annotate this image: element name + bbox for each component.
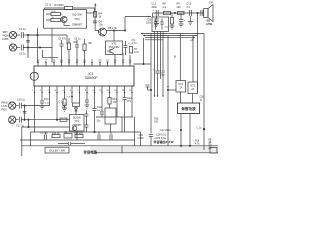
capacitor C4 xyxy=(93,21,97,23)
wire right vertical x=204 xyxy=(203,34,205,151)
resistor R4 label xyxy=(99,12,103,19)
wire: left frame vertical x=3 xyxy=(30,132,32,146)
svg-text:VT3: VT3 xyxy=(112,42,117,46)
bottom row: capacitor C24 xyxy=(98,132,100,140)
wires amp box down to bus xyxy=(180,114,190,147)
svg-text:RCW: RCW xyxy=(3,33,10,37)
resistor R8a vertical xyxy=(83,39,86,63)
wire x=168 vertical with arrow xyxy=(167,36,176,146)
svg-text:TV1: TV1 xyxy=(74,119,79,123)
resistor R3 above box xyxy=(45,6,95,11)
wire pin10 down: capacitor C21 xyxy=(100,93,104,118)
relay NT1 label xyxy=(179,83,184,90)
capacitor C4 label xyxy=(99,20,104,27)
connector J1 xyxy=(9,31,20,38)
wire x=122 bus links xyxy=(121,117,123,153)
capacitor C13 xyxy=(189,10,191,16)
wire pin11 down: resistor R12 xyxy=(108,93,111,109)
capacitor C9 label xyxy=(132,38,138,45)
drop resistor R10 with ground xyxy=(170,13,175,29)
connector J2 xyxy=(9,44,20,51)
bottom row: diode D1 box xyxy=(64,134,72,139)
capacitor C12 xyxy=(156,10,158,16)
bottom right labels column xyxy=(154,118,159,124)
bottom row: resistor R14 xyxy=(75,135,83,138)
capacitor C10b in box3 xyxy=(160,19,164,30)
resistor R8 label xyxy=(163,3,167,9)
wire bundle v2 xyxy=(154,32,156,97)
svg-text:+: + xyxy=(184,20,186,23)
wire pin8 down: capacitor and ground xyxy=(85,93,90,109)
bundle capacitor C26 xyxy=(149,134,153,146)
svg-text:3: 3 xyxy=(47,90,49,92)
wire box1 right to supply chain xyxy=(87,4,97,31)
svg-text:2.2k: 2.2k xyxy=(67,97,72,99)
bottom row: capacitor C25 xyxy=(110,132,112,140)
capacitor C17 xyxy=(19,117,69,123)
wire pin7 down into TV1 box xyxy=(79,93,81,104)
svg-text:R3 6800: R3 6800 xyxy=(55,4,65,7)
svg-text:220: 220 xyxy=(177,6,182,9)
box text SQ SW TV2 2SB687 xyxy=(72,13,83,27)
wire x=134.5 down xyxy=(134,117,136,146)
svg-text:C2 1u: C2 1u xyxy=(19,52,26,55)
svg-text:20: 20 xyxy=(99,59,102,62)
IC U1 notch xyxy=(30,72,38,80)
wire pin4 down xyxy=(56,93,57,121)
wire bundle v1 xyxy=(150,34,152,134)
wire NT2 top feed xyxy=(192,36,194,83)
wire: bus y=140 xyxy=(20,139,135,141)
supply rail 1 xyxy=(141,33,204,35)
wire box3 top to audio line xyxy=(152,13,154,17)
svg-text:TV2: TV2 xyxy=(74,17,80,21)
wire y=35 rail to cluster xyxy=(28,35,67,44)
wire x=37.5 vertical to IC pin 28 xyxy=(37,28,38,63)
junction node x28 bottom xyxy=(24,105,25,121)
wire x=140.5 down xyxy=(140,132,142,146)
transistor VT3 labels xyxy=(109,42,120,49)
drop ground under C13 xyxy=(188,16,193,25)
wire box1 bottom to IC pin 26 xyxy=(51,28,53,62)
svg-text:LCN: LCN xyxy=(2,104,7,108)
svg-text:伴音电路: 伴音电路 xyxy=(83,149,98,154)
relay box NT2 xyxy=(188,82,198,94)
resistor R8 xyxy=(164,11,171,14)
svg-text:6: 6 xyxy=(70,90,72,92)
svg-text:4.7k: 4.7k xyxy=(134,50,140,54)
wire NT1 top feed xyxy=(179,34,181,81)
transistor Q2 symbol in TV1 box xyxy=(72,126,76,130)
capacitor C14 xyxy=(201,10,203,16)
wire corner to pin 25 xyxy=(43,50,59,57)
svg-text:27: 27 xyxy=(45,59,48,62)
capacitor C3 mini on node xyxy=(26,41,30,53)
SQSW TV1 labels xyxy=(72,116,82,127)
resistor R4 vertical xyxy=(94,12,97,18)
resistor R7 vertical xyxy=(129,47,132,54)
svg-text:C23 1u: C23 1u xyxy=(40,132,49,135)
supply rail 4 short xyxy=(145,39,163,41)
wire: bottom edge bus y=153 xyxy=(95,152,218,154)
wire x=28 stub down xyxy=(27,48,29,59)
drop capacitor C16a with ground xyxy=(179,13,184,27)
wire from C1 to node xyxy=(23,34,37,36)
connector J3 xyxy=(9,102,19,109)
IC U1 top pin junction dots xyxy=(37,62,131,64)
resistor R2 xyxy=(46,18,60,21)
resistor R7 label xyxy=(134,47,140,54)
bottom right value rows xyxy=(154,129,171,140)
IC U1 TA8690P body xyxy=(34,66,134,86)
wire bundle v4 xyxy=(160,32,162,80)
audio out wire y=13 xyxy=(153,12,204,13)
svg-text:1u: 1u xyxy=(200,100,203,102)
IC U1 bottom pins xyxy=(35,86,133,93)
box3 component block xyxy=(152,17,169,32)
capacitor C16 xyxy=(19,103,49,109)
svg-text:NT2: NT2 xyxy=(191,84,196,87)
wire IC right edge to bundle xyxy=(134,63,152,65)
resistor R6 vertical xyxy=(67,38,70,63)
wire TV1 box to bus xyxy=(76,131,78,140)
svg-text:10u: 10u xyxy=(97,121,102,123)
wire pin12 down xyxy=(116,93,118,118)
svg-text:R8: R8 xyxy=(89,42,93,45)
svg-text:C5 47u: C5 47u xyxy=(58,38,67,41)
transistor VT2 xyxy=(95,28,106,36)
resistor R9 label xyxy=(177,3,182,9)
IC U1 bottom pin junction dots xyxy=(34,92,133,93)
audio power amp box xyxy=(178,103,200,114)
capacitor C31 small xyxy=(146,85,152,91)
cluster: capacitor C5 xyxy=(60,40,64,63)
svg-text:2A: 2A xyxy=(179,87,182,90)
svg-text:2.2: 2.2 xyxy=(163,6,167,9)
under-IC value labels xyxy=(45,97,72,105)
wire pin1 down to bus xyxy=(34,93,36,133)
svg-text:C 1u: C 1u xyxy=(197,128,203,130)
svg-text:SP: SP xyxy=(209,1,213,5)
svg-text:C15: C15 xyxy=(147,20,152,22)
wire pin3 down xyxy=(49,93,51,106)
capacitor C30 label xyxy=(200,97,205,102)
capacitor C22 label xyxy=(127,97,132,103)
bottom row: capacitor C23 xyxy=(45,132,47,140)
svg-text:100: 100 xyxy=(154,121,159,124)
connector J1 labels xyxy=(3,30,10,41)
svg-text:1u: 1u xyxy=(97,109,100,112)
svg-text:5: 5 xyxy=(62,90,64,92)
wire x=143.5 vertical to IC right xyxy=(143,38,144,65)
wire L to arrow into box3 xyxy=(125,16,151,31)
capacitor C34 mini on node xyxy=(23,112,27,114)
svg-text:伴音输出2×1W: 伴音输出2×1W xyxy=(153,139,174,144)
svg-text:TA8690P: TA8690P xyxy=(84,76,97,80)
capacitor C8 xyxy=(124,41,128,55)
wire pin6 down into TV1 box xyxy=(71,93,79,115)
svg-text:2SC2482: 2SC2482 xyxy=(109,45,120,49)
wire Q1 links xyxy=(60,14,70,26)
svg-text:4.7k: 4.7k xyxy=(195,144,200,146)
svg-text:FWS: FWS xyxy=(3,37,9,41)
box: mute switch SQSW TV1 xyxy=(70,115,85,132)
short bus y=117 xyxy=(96,116,133,118)
svg-text:26: 26 xyxy=(53,59,56,62)
capacitor C6 xyxy=(75,40,79,63)
wire bundle v5 xyxy=(162,32,164,97)
svg-text:+: + xyxy=(153,9,155,12)
box: mute switch SQ SW TV2 xyxy=(44,10,87,29)
speaker impedance label xyxy=(206,19,213,26)
svg-text:SBY: SBY xyxy=(3,30,9,34)
svg-text:0.1: 0.1 xyxy=(187,6,191,9)
capacitor C12 label xyxy=(152,3,158,9)
svg-text:C27 220u: C27 220u xyxy=(160,129,171,132)
connector J3 labels xyxy=(2,101,8,112)
component box under pin 11 xyxy=(105,108,116,132)
IC U1 label xyxy=(84,72,97,80)
svg-text:1: 1 xyxy=(32,90,34,92)
resistor R9 xyxy=(178,11,185,14)
svg-text:C6 1u: C6 1u xyxy=(74,38,81,41)
wire VT2 to right y=30.5 xyxy=(107,30,126,31)
svg-text:9: 9 xyxy=(92,90,94,92)
IC U1 top pin numbers xyxy=(37,59,132,62)
svg-text:C16 1u: C16 1u xyxy=(17,99,26,102)
scan shadow band bottom xyxy=(90,146,218,152)
svg-text:100: 100 xyxy=(62,106,67,109)
wire bundle v3 with capacitor C11 xyxy=(155,32,159,97)
svg-text:100u: 100u xyxy=(146,23,152,25)
svg-text:47k: 47k xyxy=(113,101,118,104)
wire: bus y=132 xyxy=(31,131,141,133)
wire pin13 down: capacitor C22 xyxy=(123,93,127,133)
svg-text:DOLBY / NR: DOLBY / NR xyxy=(49,148,65,152)
capacitor C13 label xyxy=(187,3,192,9)
transistor Q1 in box xyxy=(61,17,67,23)
svg-text:2A: 2A xyxy=(191,88,194,91)
connector J4 xyxy=(9,116,19,123)
svg-text:7: 7 xyxy=(77,90,79,92)
svg-text:4.7u: 4.7u xyxy=(132,41,138,45)
IC U1 bottom pin numbers xyxy=(32,90,132,92)
speaker SP xyxy=(204,5,213,22)
capacitor C10a in box3 xyxy=(154,19,158,30)
capacitor C1 xyxy=(21,32,23,38)
svg-text:R16: R16 xyxy=(195,141,200,143)
svg-text:2SB687: 2SB687 xyxy=(72,22,83,26)
svg-text:C1 1u: C1 1u xyxy=(19,28,26,31)
svg-text:C30: C30 xyxy=(200,97,205,99)
DOLBY NR box xyxy=(45,147,69,153)
junction dots bundle ends xyxy=(154,95,164,96)
capacitor C26 label xyxy=(138,134,145,140)
supply rail 3 with arrow xyxy=(145,37,195,39)
transistor VT3 symbol xyxy=(107,49,114,54)
svg-text:伴音功放: 伴音功放 xyxy=(180,106,196,111)
capacitor C20 label xyxy=(97,106,102,112)
svg-text:R5 1.5k: R5 1.5k xyxy=(108,26,118,30)
svg-text:220u: 220u xyxy=(152,6,158,9)
bottom right small box xyxy=(210,148,217,154)
wires VT3 area to IC pins xyxy=(115,53,130,63)
svg-text:8: 8 xyxy=(85,90,87,92)
resistor R12 label xyxy=(113,98,118,104)
svg-text:47u: 47u xyxy=(127,100,132,103)
wire: bottom bus y=145.5 xyxy=(22,145,218,147)
capacitor C2 xyxy=(21,45,52,51)
svg-text:NT1: NT1 xyxy=(179,83,184,86)
svg-text:0.5W: 0.5W xyxy=(206,22,213,26)
wire y=148.5 xyxy=(58,142,85,145)
svg-text:19: 19 xyxy=(106,59,109,62)
svg-text:4: 4 xyxy=(55,90,57,92)
svg-text:R 1k: R 1k xyxy=(44,99,50,101)
transistor VT3 box xyxy=(106,31,123,55)
svg-text:REV: REV xyxy=(2,107,8,111)
relay NT2 label xyxy=(191,84,196,91)
svg-text:21: 21 xyxy=(91,59,94,62)
ground at C15 xyxy=(154,24,159,27)
right edge labels column xyxy=(195,128,202,146)
supply rail 2 xyxy=(143,35,198,37)
wire pin2 down: capacitor C18 and ground xyxy=(40,93,45,110)
svg-text:PWD: PWD xyxy=(2,101,8,105)
relay box NT1 xyxy=(176,81,186,93)
bottom row: resistor R13 xyxy=(52,135,60,138)
wires NT boxes to amp box xyxy=(181,92,193,103)
wire pin14 down xyxy=(131,93,133,118)
capacitor C15 label xyxy=(146,20,152,25)
capacitor C19 xyxy=(85,110,89,132)
svg-text:C3 1u: C3 1u xyxy=(45,5,52,7)
svg-text:B: B xyxy=(174,55,176,59)
wire speaker return x=197.5 xyxy=(197,13,199,93)
junction node x28 top xyxy=(27,34,40,48)
wire pin9 down: capacitor C20 xyxy=(93,93,97,133)
svg-text:2: 2 xyxy=(40,90,42,92)
svg-text:SQSW: SQSW xyxy=(73,116,81,120)
IC U1 top pins xyxy=(38,63,130,67)
resistor R11 xyxy=(60,118,67,121)
svg-text:10u: 10u xyxy=(99,23,104,27)
wire pin5 down: resistor and ground xyxy=(62,93,67,112)
drop capacitor C15 with ground xyxy=(154,16,159,24)
svg-text:+: + xyxy=(128,41,130,45)
wire x=30 to bus xyxy=(22,119,70,156)
resistor R1 xyxy=(46,12,60,15)
svg-text:0.022: 0.022 xyxy=(138,137,145,140)
